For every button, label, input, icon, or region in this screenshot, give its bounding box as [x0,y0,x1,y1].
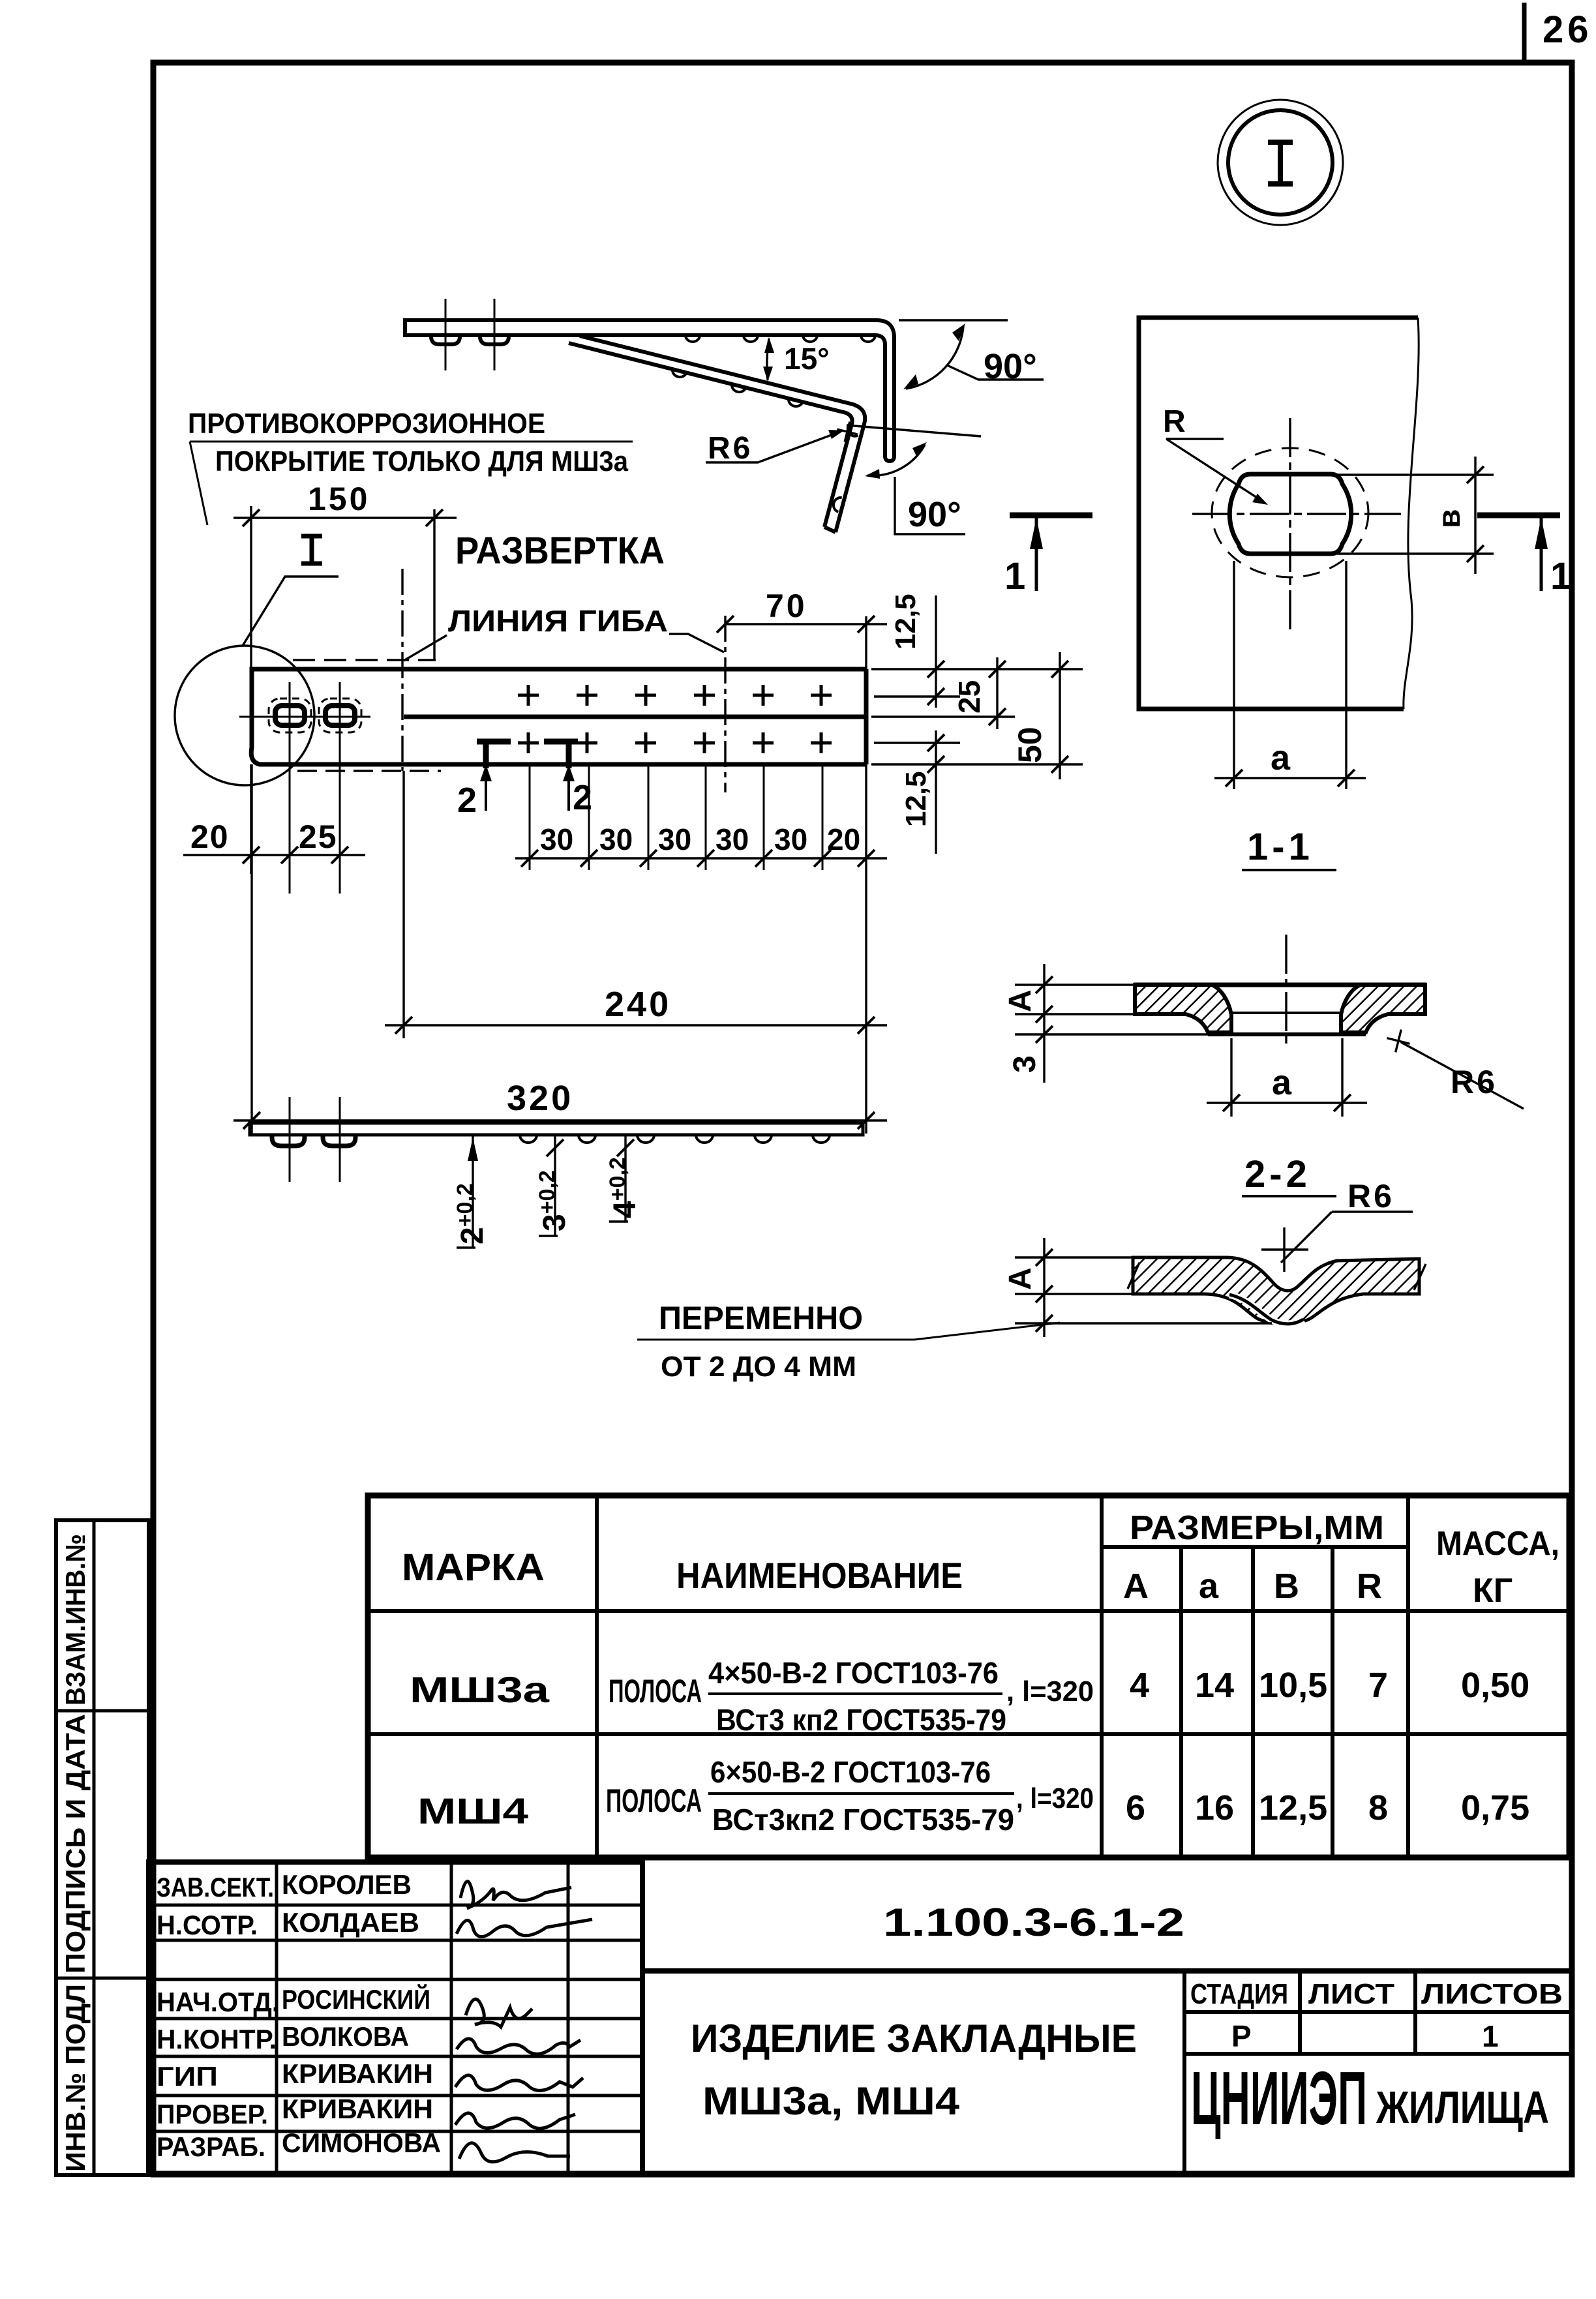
dimension 90 degrees upper [906,326,963,389]
svg-text:ЦНИИЭП: ЦНИИЭП [1191,2056,1367,2141]
dashed unfolded tab line top [293,659,436,661]
dimension 3+0,2 [554,1136,556,1236]
svg-text:1: 1 [1004,555,1025,597]
bracket lower leg end cap [824,527,836,532]
svg-text:20: 20 [827,822,860,856]
development (flat pattern) view [175,481,1083,1134]
title block [149,1862,1572,2174]
right side extension lines [871,669,1083,764]
svg-text:ИЗДЕЛИЕ ЗАКЛАДНЫЕ: ИЗДЕЛИЕ ЗАКЛАДНЫЕ [691,2017,1137,2060]
svg-text:2: 2 [457,781,477,820]
svg-text:1: 1 [1550,555,1571,597]
top surface line [1134,983,1426,987]
bracket bar and right leg outline [405,320,894,461]
svg-text:А: А [1123,1567,1149,1606]
bend line right (dash-dot) [724,616,726,792]
section 1-1 hatched [1003,935,1524,1117]
wavy break edge [1404,318,1419,709]
svg-text:12,5: 12,5 [890,594,922,650]
title block labels [157,1869,441,2162]
slot dimple bumps left [272,1135,355,1146]
dimension a below [1214,561,1366,789]
bend line left (dash-dot) [401,569,403,771]
svg-text:Р: Р [1231,2019,1252,2053]
svg-text:320: 320 [507,1079,573,1118]
svg-text:4: 4 [1130,1666,1149,1705]
svg-text:240: 240 [605,985,671,1024]
detail mark circle I [1218,100,1343,225]
centerlines left slots [289,1097,291,1182]
svg-text:30: 30 [658,822,691,856]
svg-text:в: в [1432,509,1467,528]
svg-text:ВСт3 кп2 ГОСТ535-79: ВСт3 кп2 ГОСТ535-79 [716,1703,1006,1737]
page number 26 [1524,3,1593,62]
dimension 12,5 upper [935,595,937,708]
svg-text:16: 16 [1195,1788,1234,1827]
svg-text:ВЗАМ.ИНВ.№: ВЗАМ.ИНВ.№ [60,1534,91,1705]
svg-text:ГИП: ГИП [157,2061,218,2092]
svg-text:КРИВАКИН: КРИВАКИН [282,2058,433,2089]
slot hole [1229,474,1351,554]
dimple bumps on diagonal strip [671,368,858,511]
dimple bumps [520,1135,830,1143]
svg-text:ВОЛКОВА: ВОЛКОВА [282,2021,409,2052]
bar top edge extension line [899,319,1008,321]
slot hole left [275,706,305,725]
svg-text:А: А [1003,989,1038,1012]
bar outline [250,1123,863,1135]
svg-text:7: 7 [1368,1666,1388,1705]
svg-text:, l=320: , l=320 [1016,1782,1094,1814]
svg-text:СИМОНОВА: СИМОНОВА [282,2127,441,2158]
svg-text:30: 30 [715,822,749,856]
right hatched wedge [1341,985,1425,1032]
svg-text:ПЕРЕМЕННО: ПЕРЕМЕННО [659,1300,863,1336]
side view of bent bracket [405,299,1092,597]
depression far-side top edge [1231,1012,1341,1014]
dimension v right [1337,457,1494,574]
svg-text:ЛИСТОВ: ЛИСТОВ [1421,1978,1563,2010]
svg-text:НАИМЕНОВАНИЕ: НАИМЕНОВАНИЕ [676,1555,963,1596]
svg-text:30: 30 [774,822,807,856]
svg-text:150: 150 [308,481,370,517]
svg-text:КОЛДАЕВ: КОЛДАЕВ [282,1907,419,1938]
svg-text:Н.СОТР.: Н.СОТР. [157,1910,258,1940]
svg-text:2: 2 [573,778,592,817]
svg-text:14: 14 [1195,1666,1234,1705]
dimension A left [1015,1238,1272,1337]
svg-text:R: R [1163,404,1186,439]
dashed line below plate [297,770,441,772]
svg-text:15°: 15° [784,342,830,376]
stage grid [1184,1971,1569,2174]
document number cell [640,1862,645,2174]
section marker 1 lower right [1004,515,1092,597]
break marks on bar ends [1128,1263,1139,1289]
svg-text:, l=320: , l=320 [1006,1675,1094,1707]
svg-text:РАЗРАБ.: РАЗРАБ. [157,2131,265,2162]
svg-text:ОТ 2 ДО 4 ММ: ОТ 2 ДО 4 ММ [661,1351,856,1383]
svg-text:6×50-В-2 ГОСТ103-76: 6×50-В-2 ГОСТ103-76 [710,1755,991,1789]
bracket diagonal strip upper edge [580,336,865,532]
svg-text:ПОЛОСА: ПОЛОСА [606,1782,702,1819]
depression bottom edge [1208,1032,1366,1036]
svg-text:a: a [1272,1063,1292,1102]
svg-text:70: 70 [766,588,807,624]
svg-text:R: R [1357,1567,1382,1606]
center line vertical [1285,935,1287,1044]
dimple cross marks row 2 [518,732,832,753]
detail plate square [1139,318,1418,709]
dimension 50 right [1059,652,1061,779]
svg-text:1.100.3-6.1-2: 1.100.3-6.1-2 [883,1901,1184,1944]
centerlines through left dimples [445,299,447,370]
flat bar side view [250,1097,1060,1383]
svg-text:0,50: 0,50 [1461,1666,1529,1705]
svg-text:ВСт3кп2 ГОСТ535-79: ВСт3кп2 ГОСТ535-79 [712,1803,1014,1837]
dimension a [1207,1038,1367,1117]
svg-text:КГ: КГ [1473,1572,1513,1610]
svg-text:В: В [1274,1567,1299,1606]
svg-text:20: 20 [190,819,230,855]
svg-text:30: 30 [599,822,633,856]
svg-text:12,5: 12,5 [900,771,932,827]
dimension 2+0,2 [472,1136,474,1248]
dimple inner line [1229,1295,1303,1324]
svg-text:МШ4: МШ4 [417,1790,528,1831]
signatures [455,1882,592,2162]
svg-text:a: a [1271,738,1291,777]
mid slit thick line [404,715,866,719]
svg-text:РОСИНСКИЙ: РОСИНСКИЙ [282,1983,430,2015]
svg-text:90°: 90° [984,347,1037,386]
left hatched wedge [1135,985,1231,1032]
svg-text:2-2: 2-2 [1244,1153,1311,1195]
dimple bumps under bar [431,335,509,344]
svg-text:8: 8 [1368,1788,1388,1827]
svg-text:РАЗВЕРТКА: РАЗВЕРТКА [455,530,665,572]
svg-text:25: 25 [299,819,338,855]
svg-text:ИНВ.№ ПОДЛ: ИНВ.№ ПОДЛ [60,1984,91,2172]
svg-text:ПРОВЕР.: ПРОВЕР. [157,2099,268,2129]
svg-text:ЖИЛИЩА: ЖИЛИЩА [1376,2082,1549,2133]
svg-text:ПОДПИСЬ И ДАТА: ПОДПИСЬ И ДАТА [60,1714,91,1974]
svg-text:30: 30 [540,822,573,856]
section marker 1 right [1477,515,1571,597]
parts table [368,1495,1569,1857]
bracket diagonal strip lower edge [569,343,852,527]
svg-text:СТАДИЯ: СТАДИЯ [1190,1978,1288,2010]
svg-text:26: 26 [1543,8,1593,51]
svg-text:МШ3а: МШ3а [410,1669,550,1710]
svg-text:1: 1 [1482,2019,1499,2053]
frame bottom segment below title block [149,2171,1572,2177]
dashed countersink circle [1212,448,1368,577]
svg-text:МШ3а, МШ4: МШ3а, МШ4 [702,2079,960,2123]
svg-text:НАЧ.ОТД.: НАЧ.ОТД. [157,1987,279,2017]
svg-text:25: 25 [952,680,986,714]
section 2-2 hatched [1003,1153,1426,1337]
dimension 90 degrees lower [847,425,981,436]
svg-text:КОРОЛЕВ: КОРОЛЕВ [282,1869,412,1900]
note anticorrosion coating [188,408,633,525]
svg-text:ЛИНИЯ ГИБА: ЛИНИЯ ГИБА [448,604,668,638]
svg-text:1-1: 1-1 [1247,826,1314,868]
section cut marks 2 [477,740,578,768]
svg-text:a: a [1199,1567,1219,1606]
svg-text:R6: R6 [1348,1178,1394,1214]
centerline vertical [1289,418,1291,631]
svg-text:90°: 90° [908,495,961,534]
svg-text:ЗАВ.СЕКТ.: ЗАВ.СЕКТ. [157,1872,274,1902]
slot centerlines [239,716,370,718]
svg-text:КРИВАКИН: КРИВАКИН [282,2094,433,2124]
table grid [368,1495,1569,1857]
svg-text:4×50-В-2 ГОСТ103-76: 4×50-В-2 ГОСТ103-76 [708,1656,999,1690]
enlarged detail I of slotted hole [1139,318,1571,870]
dimension row 30x5 and 20 [515,857,887,859]
svg-text:3: 3 [1008,1055,1042,1073]
plate outline [251,669,866,764]
svg-text:Н.КОНТР.: Н.КОНТР. [157,2024,277,2054]
left attribute strip [56,1520,149,2175]
dimple cross marks row 1 [518,685,832,706]
dimension 4+0,2 [624,1136,626,1222]
svg-text:ПОКРЫТИЕ ТОЛЬКО ДЛЯ МШ3а: ПОКРЫТИЕ ТОЛЬКО ДЛЯ МШ3а [215,445,628,477]
centerline horizontal [1192,513,1401,515]
svg-text:РАЗМЕРЫ,ММ: РАЗМЕРЫ,ММ [1130,1509,1384,1547]
svg-text:10,5: 10,5 [1259,1666,1327,1705]
svg-text:6: 6 [1126,1788,1145,1827]
svg-text:ПОЛОСА: ПОЛОСА [609,1673,702,1709]
dimension 25 right [996,657,998,729]
svg-text:А: А [1003,1267,1038,1290]
hatched dimpled bar [1133,1257,1419,1324]
svg-text:0,75: 0,75 [1461,1788,1529,1827]
svg-text:ПРОТИВОКОРРОЗИОННОЕ: ПРОТИВОКОРРОЗИОННОЕ [188,408,545,440]
dimension 15 degrees [767,338,769,380]
svg-text:ЛИСТ: ЛИСТ [1308,1978,1394,2010]
svg-text:МАССА,: МАССА, [1436,1525,1559,1563]
detail label I with leader [301,536,322,563]
detail circle I [175,646,314,785]
svg-text:R6: R6 [708,431,753,466]
svg-text:МАРКА: МАРКА [402,1546,545,1589]
dimension 12,5 lower [935,730,937,854]
svg-text:50: 50 [1012,727,1048,763]
dimension 3 left [1015,1033,1208,1035]
slot hole right [325,706,355,725]
title block grid left part [149,1862,642,2174]
dimension A left [1015,964,1138,1083]
svg-text:12,5: 12,5 [1259,1788,1327,1827]
